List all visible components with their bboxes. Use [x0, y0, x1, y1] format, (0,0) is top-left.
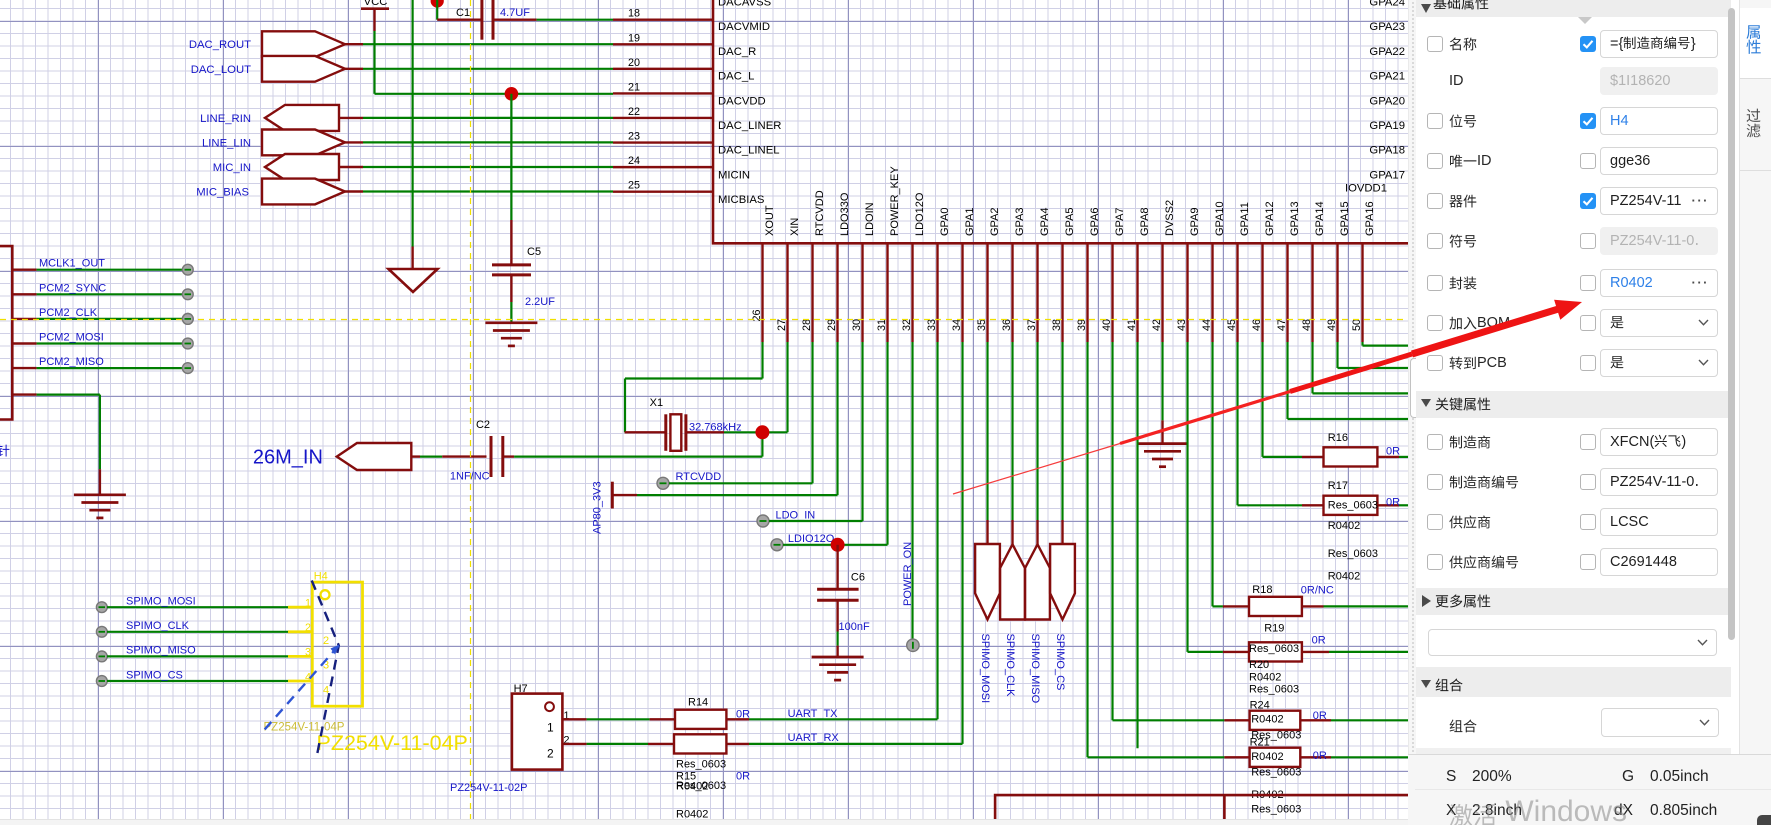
- net POWER_ON wire pin32 with open pin: [911, 342, 913, 639]
- svg-text:Res_0603: Res_0603: [1251, 804, 1301, 816]
- row 唯一ID: [1427, 153, 1443, 169]
- svg-text:0R: 0R: [1313, 710, 1327, 722]
- svg-text:Res_0603: Res_0603: [1249, 643, 1299, 655]
- capacitor C5 with junction: [505, 87, 519, 101]
- svg-text:LDO12O: LDO12O: [914, 192, 926, 236]
- svg-text:GPA3: GPA3: [1014, 207, 1026, 236]
- port flag MIC_BIAS: [262, 179, 345, 205]
- svg-text:GPA2: GPA2: [989, 207, 1001, 236]
- svg-text:R16: R16: [1328, 432, 1348, 444]
- svg-text:GPA8: GPA8: [1139, 207, 1151, 236]
- ground left: [74, 493, 126, 496]
- selection dashed guides: [312, 581, 339, 758]
- svg-text:50: 50: [1351, 319, 1363, 331]
- svg-text:MIC_IN: MIC_IN: [213, 162, 251, 174]
- svg-text:SPIMO_MISO: SPIMO_MISO: [126, 645, 196, 657]
- svg-text:22: 22: [628, 106, 640, 118]
- net LDIO12O: open pin, wire to pin31, junction to C6: [771, 539, 783, 551]
- resistor R24 fed from pin40: [1111, 342, 1113, 720]
- wire MIC_BIAS to U1: [363, 190, 613, 192]
- svg-text:GPA19: GPA19: [1369, 120, 1405, 132]
- svg-text:RTCVDD: RTCVDD: [814, 190, 826, 236]
- svg-text:0R/NC: 0R/NC: [1301, 585, 1334, 597]
- ground below C5: [485, 321, 537, 324]
- svg-text:PCM2_SYNC: PCM2_SYNC: [39, 282, 106, 294]
- svg-text:POWER_KEY: POWER_KEY: [889, 166, 901, 236]
- svg-text:POWER_ON: POWER_ON: [902, 542, 914, 606]
- wire vertical to open triangle port: [412, 0, 414, 247]
- svg-text:UART_RX: UART_RX: [788, 732, 840, 744]
- svg-text:GPA20: GPA20: [1369, 95, 1405, 107]
- port flag SPIMO_MISO (vertical): [1036, 342, 1038, 520]
- wire PCM2_MISO with open pin circle: [12, 367, 36, 369]
- svg-text:33: 33: [926, 319, 938, 331]
- row 名称: [1427, 36, 1443, 52]
- svg-text:R21: R21: [1250, 737, 1270, 749]
- row 组合: [1449, 716, 1477, 736]
- row 位号: [1427, 113, 1443, 129]
- svg-text:R0402: R0402: [1251, 751, 1283, 763]
- U1 left pins 18-25 stubs and numbers: [613, 19, 713, 21]
- wire MCLK1_OUT with open pin circle: [12, 269, 36, 271]
- svg-text:DVSS2: DVSS2: [1164, 200, 1176, 236]
- yellow origin guide vertical: [470, 0, 472, 825]
- svg-text:DACVMID: DACVMID: [718, 21, 770, 33]
- svg-text:29: 29: [826, 319, 838, 331]
- ground below C6: [812, 656, 864, 659]
- svg-text:SPIMO_CLK: SPIMO_CLK: [126, 620, 190, 632]
- svg-text:DAC_LINER: DAC_LINER: [718, 120, 781, 132]
- svg-text:18: 18: [628, 8, 640, 20]
- capacitor C2: [442, 455, 486, 457]
- wire SPIMO_CLK: [96, 626, 107, 637]
- row 供应商: [1427, 514, 1443, 530]
- row 供应商编号: [1427, 554, 1443, 570]
- svg-text:Res_0603: Res_0603: [1328, 500, 1378, 512]
- section 关键属性: [1416, 391, 1731, 418]
- svg-text:AP80_3V3: AP80_3V3: [592, 481, 604, 534]
- svg-text:R18: R18: [1252, 584, 1272, 596]
- U1 bottom pins 26-50: stubs, rotated names, rotated numbers: [761, 243, 763, 342]
- resistor R16 fed from pin46: [1261, 342, 1263, 457]
- svg-text:20: 20: [628, 57, 640, 69]
- svg-text:37: 37: [1026, 319, 1038, 331]
- capacitor C1: [431, 0, 444, 8]
- wire SPIMO_MISO: [96, 651, 107, 662]
- svg-text:34: 34: [951, 319, 963, 331]
- svg-text:4.7UF: 4.7UF: [500, 7, 530, 19]
- wire to left ground: [12, 393, 36, 395]
- svg-text:MICBIAS: MICBIAS: [718, 194, 765, 206]
- svg-text:GPA4: GPA4: [1039, 207, 1051, 236]
- svg-text:0R: 0R: [1386, 446, 1400, 458]
- svg-text:45: 45: [1226, 319, 1238, 331]
- wire SPIMO_MOSI: [96, 602, 107, 613]
- wire C1 to pin 18: [537, 19, 613, 21]
- svg-text:19: 19: [628, 32, 640, 44]
- svg-text:GPA15: GPA15: [1339, 201, 1351, 236]
- open triangle flag (pointing down): [389, 269, 438, 292]
- svg-text:36: 36: [1001, 319, 1013, 331]
- svg-text:0R: 0R: [1386, 497, 1400, 509]
- svg-text:XIN: XIN: [789, 218, 801, 236]
- wire crystal to XIN pin27, junction: [724, 431, 788, 433]
- wire PCM2_MOSI with open pin circle: [12, 342, 36, 344]
- port flag SPIMO_CS (vertical): [1061, 342, 1063, 520]
- wire LINE_RIN to U1: [363, 117, 613, 119]
- port flag DAC_ROUT: [262, 31, 345, 57]
- wire DAC_LOUT to U1: [363, 68, 613, 70]
- svg-text:R0402: R0402: [1251, 714, 1283, 726]
- net RTCVDD: open pin, wire to pin28: [657, 477, 669, 489]
- port flag LINE_RIN: [265, 105, 339, 131]
- svg-text:R17: R17: [1328, 480, 1348, 492]
- svg-text:25: 25: [628, 180, 640, 192]
- svg-text:GPA16: GPA16: [1364, 201, 1376, 236]
- svg-text:SPIMO_CLK: SPIMO_CLK: [1004, 634, 1016, 698]
- svg-text:2: 2: [305, 622, 311, 634]
- svg-text:1: 1: [305, 598, 311, 610]
- svg-text:24: 24: [628, 155, 640, 167]
- svg-text:R0402: R0402: [1328, 571, 1360, 583]
- svg-text:GPA1: GPA1: [964, 207, 976, 236]
- svg-text:GPA10: GPA10: [1214, 201, 1226, 236]
- svg-text:47: 47: [1276, 319, 1288, 331]
- row 封装: [1427, 275, 1443, 291]
- port flag LINE_LIN: [262, 130, 345, 156]
- svg-text:1: 1: [547, 721, 554, 735]
- svg-text:GPA12: GPA12: [1264, 201, 1276, 236]
- svg-text:VCC: VCC: [364, 0, 388, 8]
- svg-text:C5: C5: [527, 246, 541, 258]
- svg-text:43: 43: [1176, 319, 1188, 331]
- row 符号: [1427, 233, 1443, 249]
- svg-text:MIC_BIAS: MIC_BIAS: [196, 187, 249, 199]
- svg-text:DAC_L: DAC_L: [718, 71, 754, 83]
- section 更多属性 (collapsed): [1416, 588, 1731, 615]
- svg-text:39: 39: [1076, 319, 1088, 331]
- svg-text:100nF: 100nF: [839, 621, 870, 633]
- svg-text:28: 28: [801, 319, 813, 331]
- svg-text:PZ254V-11-04P: PZ254V-11-04P: [317, 731, 468, 755]
- partial text 针: [0, 445, 9, 457]
- row 制造商编号: [1427, 474, 1443, 490]
- svg-text:C1: C1: [456, 7, 470, 19]
- svg-text:SPIMO_MOSI: SPIMO_MOSI: [979, 634, 991, 704]
- lower IC top edge: [995, 795, 1408, 819]
- svg-text:LDO33O: LDO33O: [839, 192, 851, 236]
- wire LINE_LIN to U1: [363, 141, 613, 143]
- svg-text:30: 30: [851, 319, 863, 331]
- resistor R15: [648, 743, 674, 745]
- svg-text:2: 2: [547, 747, 554, 761]
- svg-text:35: 35: [976, 319, 988, 331]
- svg-text:R0402: R0402: [1328, 520, 1360, 532]
- svg-text:R20: R20: [1249, 659, 1269, 671]
- svg-text:0R: 0R: [1313, 750, 1327, 762]
- row 转到PCB: [1427, 355, 1443, 371]
- port flag SPIMO_MOSI (vertical): [986, 342, 988, 520]
- svg-text:PZ254V-11-02P: PZ254V-11-02P: [450, 782, 527, 794]
- svg-text:PCM2_MISO: PCM2_MISO: [39, 356, 104, 368]
- wire C2 to crystal junction: [514, 456, 762, 458]
- capacitor C6: [836, 545, 838, 590]
- svg-text:27: 27: [776, 319, 788, 331]
- red annotation arrow pointing to footprint field: [953, 444, 1120, 495]
- svg-text:MICIN: MICIN: [718, 169, 750, 181]
- svg-text:41: 41: [1126, 319, 1138, 331]
- svg-text:GPA9: GPA9: [1189, 207, 1201, 236]
- svg-text:SPIMO_CS: SPIMO_CS: [1054, 634, 1066, 691]
- svg-text:44: 44: [1201, 319, 1213, 331]
- connector body edge at left (partially off-canvas): [0, 246, 12, 419]
- connector H7: [512, 694, 563, 770]
- svg-text:GPA22: GPA22: [1369, 46, 1405, 58]
- svg-text:R19: R19: [1264, 623, 1284, 635]
- svg-text:21: 21: [628, 81, 640, 93]
- svg-text:IOVDD1: IOVDD1: [1345, 183, 1387, 195]
- svg-text:2.2UF: 2.2UF: [525, 296, 555, 308]
- svg-text:LDIO12O: LDIO12O: [788, 533, 835, 545]
- svg-text:C6: C6: [851, 572, 865, 584]
- svg-text:0R: 0R: [1312, 635, 1326, 647]
- svg-text:GPA5: GPA5: [1064, 207, 1076, 236]
- op IC U1 body (left and bottom edges): [713, 0, 1408, 243]
- svg-text:LDO_IN: LDO_IN: [776, 510, 816, 522]
- svg-text:RTCVDD: RTCVDD: [676, 471, 722, 483]
- svg-text:R0402: R0402: [1249, 672, 1281, 684]
- wire VCC to pin21 row: [373, 31, 375, 94]
- wire MIC_IN to U1: [363, 166, 613, 168]
- svg-text:GPA11: GPA11: [1239, 202, 1251, 236]
- svg-text:DAC_LINEL: DAC_LINEL: [718, 145, 780, 157]
- port flag MIC_IN: [265, 154, 339, 180]
- row 器件: [1427, 193, 1443, 209]
- svg-text:42: 42: [1151, 319, 1163, 331]
- resistor R18 fed from pin44: [1211, 342, 1213, 606]
- svg-text:PCM2_MOSI: PCM2_MOSI: [39, 332, 104, 344]
- svg-text:Res_0603: Res_0603: [1251, 766, 1301, 778]
- svg-text:DACVDD: DACVDD: [718, 95, 766, 107]
- wires pins 47-50 exiting right: [1286, 342, 1288, 419]
- resistor R14: [650, 718, 675, 720]
- wire pin41 (GPA8) dangling down: [1136, 342, 1138, 748]
- open pin circle PCM2_CLK redraw above guide: [182, 314, 193, 325]
- svg-text:LINE_RIN: LINE_RIN: [200, 113, 251, 125]
- svg-text:LDOIN: LDOIN: [864, 202, 876, 236]
- DVSS2 pin42 to ground: [1161, 342, 1163, 420]
- connector H4 (selected, yellow): [312, 582, 362, 706]
- svg-text:48: 48: [1301, 319, 1313, 331]
- svg-text:49: 49: [1326, 319, 1338, 331]
- section 组合: [1416, 667, 1731, 698]
- svg-text:XOUT: XOUT: [764, 205, 776, 236]
- svg-text:2: 2: [323, 635, 329, 647]
- svg-text:X1: X1: [650, 397, 663, 409]
- wire AP80_3V3 to pin29: [637, 494, 838, 496]
- svg-text:DACAVSS: DACAVSS: [718, 0, 772, 9]
- resistor R21 fed from pin39: [1086, 342, 1088, 757]
- row ID: [1449, 71, 1464, 91]
- svg-text:46: 46: [1251, 319, 1263, 331]
- svg-text:40: 40: [1101, 319, 1113, 331]
- svg-text:GPA6: GPA6: [1089, 207, 1101, 236]
- svg-text:Res_0603: Res_0603: [676, 759, 726, 771]
- svg-text:DAC_R: DAC_R: [718, 46, 756, 58]
- yellow origin guide horizontal: [0, 319, 1408, 321]
- svg-text:LINE_LIN: LINE_LIN: [202, 137, 251, 149]
- svg-text:GPA17: GPA17: [1369, 169, 1405, 181]
- svg-text:PCM2_CLK: PCM2_CLK: [39, 307, 98, 319]
- crystal X1: [625, 431, 666, 433]
- svg-text:MCLK1_OUT: MCLK1_OUT: [39, 258, 105, 270]
- wire PCM2_CLK with open pin circle: [12, 318, 36, 320]
- svg-text:R0402: R0402: [676, 781, 708, 793]
- port flag SPIMO_CLK (vertical): [1011, 342, 1013, 520]
- svg-text:0R: 0R: [736, 771, 750, 783]
- svg-text:R14: R14: [688, 697, 708, 709]
- wire PCM2_SYNC with open pin circle: [12, 293, 36, 295]
- svg-text:H7: H7: [514, 683, 528, 695]
- port flag DAC_LOUT: [262, 56, 345, 82]
- row 加入BOM: [1427, 315, 1443, 331]
- resistor R17 fed from pin45: [1236, 342, 1238, 505]
- svg-text:1NF/NC: 1NF/NC: [450, 471, 490, 483]
- svg-text:38: 38: [1051, 319, 1063, 331]
- svg-text:Res_0603: Res_0603: [1249, 684, 1299, 696]
- svg-text:GPA0: GPA0: [939, 207, 951, 236]
- wire 26M_IN to C2: [420, 456, 442, 458]
- grid background: [0, 0, 1408, 825]
- svg-text:SPIMO_CS: SPIMO_CS: [126, 669, 183, 681]
- svg-text:H4: H4: [314, 571, 328, 583]
- svg-text:31: 31: [876, 319, 888, 331]
- svg-text:DAC_ROUT: DAC_ROUT: [189, 39, 251, 51]
- svg-text:SPIMO_MISO: SPIMO_MISO: [1029, 634, 1041, 704]
- svg-text:GPA7: GPA7: [1114, 207, 1126, 236]
- svg-text:GPA14: GPA14: [1314, 201, 1326, 236]
- wire SPIMO_CS: [96, 676, 107, 687]
- svg-text:C2: C2: [476, 419, 490, 431]
- svg-text:GPA24: GPA24: [1369, 0, 1405, 9]
- wire H7.1 to R14 (UART_TX): [562, 718, 586, 720]
- svg-text:26M_IN: 26M_IN: [253, 447, 323, 469]
- svg-text:23: 23: [628, 131, 640, 143]
- row 制造商: [1427, 434, 1443, 450]
- svg-text:SPIMO_MOSI: SPIMO_MOSI: [126, 596, 196, 608]
- svg-text:GPA18: GPA18: [1369, 145, 1405, 157]
- svg-text:32: 32: [901, 319, 913, 331]
- wire DAC_ROUT to U1: [363, 43, 613, 45]
- svg-text:GPA13: GPA13: [1289, 201, 1301, 236]
- wire XOUT pin26 to crystal: [761, 342, 763, 379]
- svg-text:GPA21: GPA21: [1369, 71, 1405, 83]
- svg-text:0R: 0R: [736, 709, 750, 721]
- net LDO_IN: open pin, wire to pin30: [757, 515, 769, 527]
- resistor R19 fed from pin43: [1186, 342, 1188, 652]
- svg-text:3: 3: [305, 647, 311, 659]
- svg-text:R24: R24: [1250, 700, 1270, 712]
- svg-text:GPA23: GPA23: [1369, 21, 1405, 33]
- svg-text:DAC_LOUT: DAC_LOUT: [191, 64, 251, 76]
- svg-text:Res_0603: Res_0603: [1328, 548, 1378, 560]
- wire H7.2 to R15 (UART_RX): [562, 743, 586, 745]
